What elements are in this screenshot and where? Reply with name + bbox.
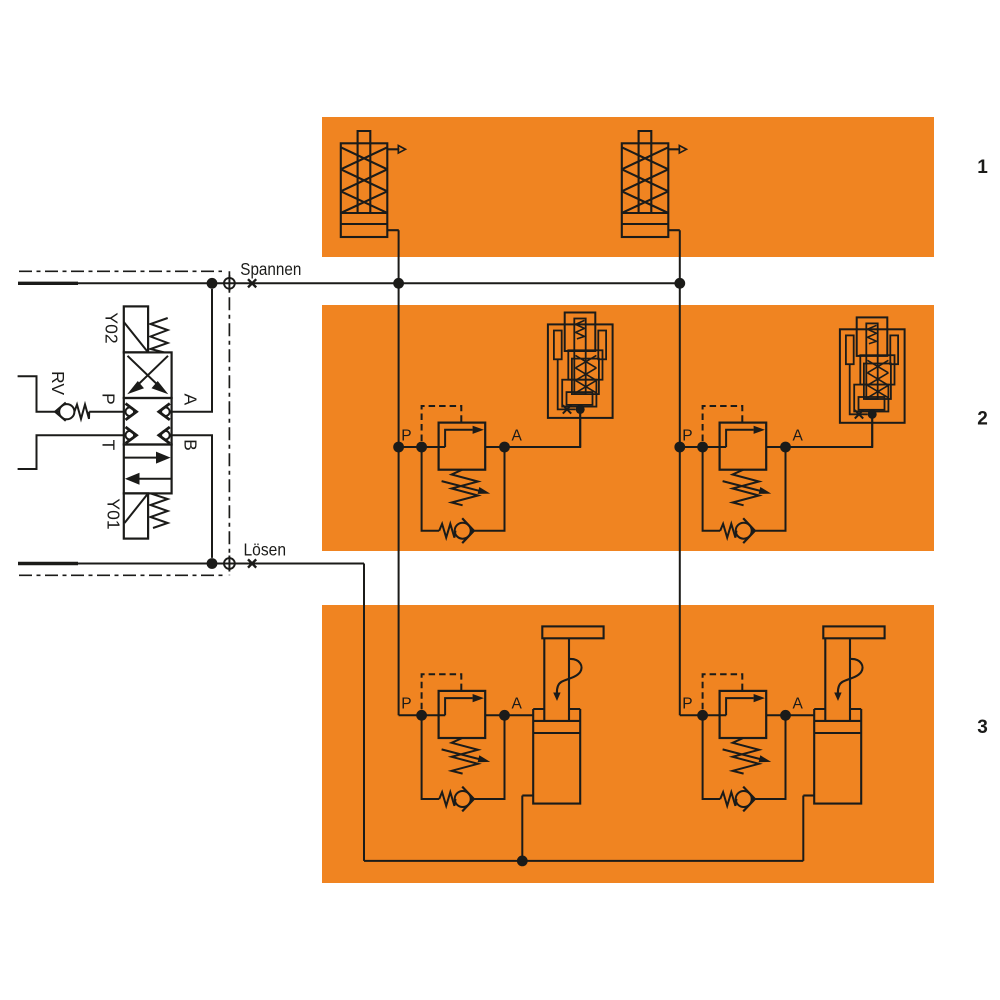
pressure reducing valve unit circuit 2 left <box>416 406 510 543</box>
check valve RV spring <box>74 405 89 419</box>
svg-text:1: 1 <box>977 157 988 178</box>
supply riser left junction dot at circuit 2 <box>393 442 404 453</box>
cross arrow 2 <box>128 356 163 390</box>
valve position square 3 (parallel arrows) <box>124 445 172 494</box>
solenoid Y02 diagonal <box>124 322 148 352</box>
wire supply to reducing valve P (circuit 2 right) <box>680 446 703 448</box>
svg-text:P: P <box>99 393 119 405</box>
check valve RV seat <box>55 403 66 421</box>
wire A to pilot cartridge (circuit 2 right) <box>786 414 873 447</box>
wire T port outlet <box>18 435 124 469</box>
supply riser left junction dot at Spannen <box>393 278 404 289</box>
supply riser right junction dot at Spannen <box>674 278 685 289</box>
swing clamp cylinder circuit 3 right <box>803 626 884 803</box>
svg-text:A: A <box>512 427 523 444</box>
svg-text:P: P <box>401 427 411 444</box>
wire supply to reducing valve P (circuit 2 left) <box>399 446 422 448</box>
parallel arrow right <box>125 457 159 459</box>
Loesen return line thick stub <box>18 562 78 565</box>
wire cartridge outlet circuit 2 right <box>871 423 873 447</box>
svg-text:A: A <box>512 696 523 713</box>
wire B port down to Loesen <box>172 435 212 558</box>
manifold boundary chain line bottom <box>19 574 226 576</box>
Loesen return line <box>78 563 364 565</box>
parallel arrow left <box>138 478 171 480</box>
pressure reducing valve unit circuit 3 right <box>697 674 791 811</box>
Loesen port symbol circle-cross <box>224 556 235 572</box>
svg-text:A: A <box>180 393 200 405</box>
wire A port up to Spannen <box>172 289 212 412</box>
solenoid box Y01 <box>124 493 148 538</box>
pilot cartridge circuit 2 right <box>840 317 905 422</box>
wire supply corner into circuit 3 right <box>680 714 703 716</box>
centre seat P <box>126 404 137 420</box>
wire A to cylinder (circuit 3 right) <box>786 714 815 716</box>
drain rail circuit 3 <box>364 860 803 862</box>
svg-text:3: 3 <box>977 717 988 738</box>
valve centre position square <box>124 398 172 445</box>
circuit group 2 orange background band <box>322 305 934 551</box>
Loesen junction dot B branch <box>207 558 218 569</box>
svg-text:RV: RV <box>48 371 68 395</box>
centre seat A <box>159 404 170 420</box>
svg-text:Lösen: Lösen <box>244 540 287 560</box>
svg-text:T: T <box>99 440 119 451</box>
svg-text:P: P <box>682 696 692 713</box>
pressure reducing valve unit circuit 2 right <box>697 406 791 543</box>
pressure reducing valve unit circuit 3 left <box>416 674 510 811</box>
valve position square 1 (cross arrows) <box>124 352 172 398</box>
wire Loesen down into circuit 3 <box>363 564 365 861</box>
wire cylinder drain down (circuit 3 right) <box>802 796 804 861</box>
svg-text:A: A <box>793 696 804 713</box>
Spannen port symbol circle-cross <box>224 275 235 291</box>
Loesen plug cross <box>248 559 256 567</box>
svg-text:Y01: Y01 <box>104 498 124 529</box>
valve return spring top <box>151 318 168 352</box>
Spannen plug cross <box>248 279 256 287</box>
Spannen supply line <box>78 282 680 284</box>
manifold boundary chain line right vertical <box>228 271 230 575</box>
solenoid Y01 diagonal <box>125 493 149 523</box>
clamping element circuit 1 left <box>341 131 406 237</box>
pilot cartridge circuit 2 left <box>548 313 613 418</box>
directional valve 4/3: solenoid box Y02 <box>124 306 148 352</box>
svg-text:B: B <box>180 439 200 451</box>
supply riser left (circuit line 1) <box>398 230 400 715</box>
clamping element circuit 1 right <box>622 131 687 237</box>
supply riser right junction dot at circuit 2 <box>674 442 685 453</box>
swing clamp cylinder circuit 3 left <box>522 626 603 803</box>
svg-text:Spannen: Spannen <box>240 259 301 279</box>
circuit group 1 orange background band <box>322 117 934 257</box>
svg-text:P: P <box>682 427 692 444</box>
svg-text:A: A <box>793 427 804 444</box>
Spannen junction dot A branch <box>207 278 218 289</box>
wire A to pilot cartridge (circuit 2 left) <box>505 409 581 447</box>
wire RV inlet <box>18 376 60 411</box>
wire supply corner into circuit 3 left <box>399 714 422 716</box>
Spannen supply line thick stub <box>18 282 78 285</box>
centre seat T <box>126 427 137 443</box>
junction dot drain rail left <box>517 856 528 867</box>
centre seat B <box>159 427 170 443</box>
svg-text:2: 2 <box>977 409 988 430</box>
wire P port to spring <box>89 411 124 413</box>
check valve RV ball <box>59 404 74 419</box>
circuit group 3 orange background band <box>322 605 934 883</box>
wire A to cylinder (circuit 3 left) <box>505 714 534 716</box>
valve return spring bottom <box>151 493 168 528</box>
cross arrow 1 <box>133 356 168 390</box>
manifold boundary chain line top <box>19 270 222 272</box>
wire cylinder drain down (circuit 3 left) <box>521 796 523 861</box>
wire cartridge outlet circuit 2 left <box>579 418 581 447</box>
svg-text:P: P <box>401 696 411 713</box>
svg-text:Y02: Y02 <box>102 312 122 343</box>
supply riser right (circuit line 2) <box>679 230 681 715</box>
